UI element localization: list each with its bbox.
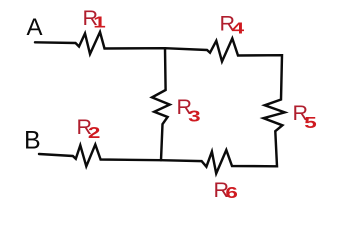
svg-text:1: 1 [93,15,106,32]
svg-text:B: B [24,127,41,155]
svg-text:3: 3 [188,109,201,126]
svg-text:A: A [27,14,43,41]
svg-text:5: 5 [304,115,317,132]
svg-text:4: 4 [232,21,245,38]
svg-text:2: 2 [88,125,100,142]
svg-text:6: 6 [225,185,238,202]
